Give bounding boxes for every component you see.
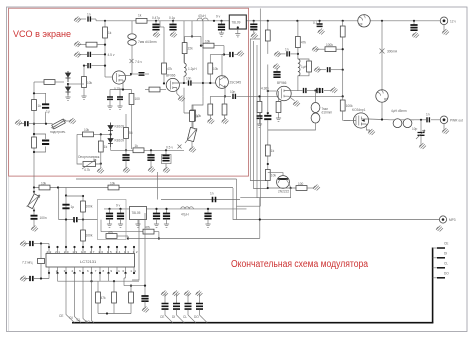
wire (110, 147, 112, 151)
capacitor C29 black (120, 209, 122, 214)
wire x58.7 (59, 188, 65, 220)
wire emitter (290, 185, 291, 189)
svg-text:1k: 1k (195, 115, 199, 119)
wire drain rail vertical (381, 21, 383, 90)
junction (104, 65, 106, 67)
resistor R35 (81, 230, 86, 241)
ground G10 (436, 226, 443, 232)
ground G22 (125, 160, 127, 168)
svg-text:1n: 1n (87, 13, 91, 17)
svg-text:1.2μH: 1.2μH (188, 67, 197, 71)
svg-text:RF: RF (384, 98, 388, 102)
svg-text:CL: CL (77, 318, 81, 322)
ground G4 (318, 29, 325, 35)
resistor R23 horizontal (325, 47, 336, 52)
svg-text:9 v: 9 v (216, 15, 221, 19)
wire (128, 236, 260, 239)
ground G13 (81, 96, 86, 99)
ground G37 (166, 219, 168, 224)
junction (165, 208, 167, 210)
svg-text:4.7k: 4.7k (84, 168, 90, 172)
junction (267, 20, 269, 22)
wire down (158, 232, 160, 239)
wire x66 (65, 188, 67, 248)
capacitor C30 black (156, 209, 158, 214)
capacitor C2 black (253, 21, 255, 25)
wire (431, 119, 440, 121)
trimcap TC4 (196, 291, 203, 297)
capacitor C25 (259, 113, 261, 117)
wire (83, 66, 85, 77)
junction (163, 82, 165, 84)
VCO shield red box (9, 8, 249, 176)
resistor R22 (307, 61, 312, 72)
capacitor C20 (274, 51, 281, 57)
wire y219.5 (66, 219, 98, 221)
svg-text:LC72131: LC72131 (80, 259, 97, 264)
junction (155, 208, 157, 210)
junction (267, 90, 269, 92)
crystal X1 (40, 244, 42, 259)
svg-text:100k: 100k (86, 205, 93, 209)
wire (209, 74, 211, 83)
resistor R31 (39, 185, 50, 190)
svg-text:DI: DI (70, 316, 73, 320)
resistor R38 (113, 281, 115, 292)
capacitor C5 series (427, 117, 429, 122)
wire (342, 96, 344, 100)
capacitor C24 black (317, 88, 319, 93)
junction (57, 186, 59, 188)
svg-text:0.1μ: 0.1μ (169, 16, 175, 20)
ground slant G27 (273, 64, 280, 70)
junction (82, 218, 84, 220)
sub box shield (98, 200, 127, 240)
wire rail y199.5 (161, 199, 240, 201)
junction (342, 69, 344, 71)
wire (131, 21, 133, 33)
svg-text:22k: 22k (188, 47, 194, 51)
capacitor C3 (319, 21, 321, 24)
wire gate (105, 76, 112, 78)
wire CE (66, 273, 75, 323)
trimmer capacitor CT1 (420, 120, 422, 132)
ground G15 (107, 106, 112, 109)
junction (127, 237, 129, 239)
wire (104, 38, 106, 77)
resistor R26 (257, 102, 262, 113)
wire (267, 41, 269, 54)
junction (33, 186, 35, 188)
tick DO (433, 277, 445, 279)
junction (200, 45, 202, 47)
trimmer RP1 (50, 118, 67, 130)
wire (411, 119, 426, 121)
capacitor C21 black (276, 68, 278, 72)
svg-text:KO34np1: KO34np1 (352, 108, 366, 112)
capacitor C7 (84, 65, 87, 67)
svg-text:10p: 10p (412, 127, 418, 131)
wire (297, 76, 299, 91)
junction (413, 20, 415, 22)
resistor R4 (82, 77, 87, 88)
junction (183, 82, 185, 84)
ground G23 (150, 160, 152, 167)
wire bottom bus (111, 149, 185, 151)
capacitor C26 (267, 113, 269, 115)
varicap D2 (66, 84, 71, 95)
transistor Q1 (112, 71, 125, 84)
svg-text:BF966: BF966 (166, 74, 176, 78)
wire rail y187.5 (34, 187, 233, 189)
pin stubs bottom (49, 267, 134, 273)
svg-text:78L05: 78L05 (132, 211, 141, 215)
wire source down (366, 124, 370, 130)
junction (130, 285, 132, 287)
resistor R20 (267, 21, 269, 30)
resistor R40 (182, 43, 187, 54)
ground G31 (278, 113, 280, 119)
wire (267, 181, 269, 189)
junction (213, 20, 215, 22)
ground G26 (191, 141, 193, 148)
svg-text:7.2 мгц: 7.2 мгц (22, 261, 33, 265)
junction (259, 218, 261, 220)
ground G33 (33, 220, 35, 227)
ground G46 (221, 30, 223, 33)
wire bundle v2 (254, 41, 269, 189)
wire (131, 45, 133, 74)
wire (268, 123, 316, 130)
junction (314, 89, 316, 91)
svg-text:2N2222: 2N2222 (278, 190, 289, 194)
junction (40, 277, 42, 279)
wire (34, 273, 49, 279)
resistor R5 (34, 81, 44, 83)
wire pins 7,8 down (100, 273, 109, 281)
wire gate feed (344, 120, 350, 122)
connector J1 12V (440, 17, 448, 25)
junction (158, 237, 160, 239)
svg-text:47k: 47k (167, 67, 173, 71)
ground G3 (253, 30, 255, 34)
ground G19 (209, 115, 211, 119)
wire (100, 152, 102, 168)
wire (381, 102, 383, 120)
capacitor C32 black (207, 209, 209, 214)
junction (104, 44, 106, 46)
junction (150, 149, 152, 151)
wire (113, 303, 115, 313)
wire (94, 133, 111, 135)
wire pin2 down (57, 273, 59, 281)
resistor R2 (104, 21, 106, 27)
junction (122, 88, 124, 90)
wire (203, 82, 216, 84)
svg-text:Опорн.напряж.: Опорн.напряж. (78, 155, 100, 159)
svg-text:10k: 10k (205, 40, 211, 44)
junction (33, 133, 35, 135)
resistor R15 (98, 141, 103, 152)
junction (296, 20, 298, 22)
bus vertical thick (432, 248, 434, 323)
svg-text:DI: DI (172, 315, 175, 319)
wire (124, 285, 145, 287)
wire bundle v3 (257, 45, 291, 198)
ground G11 (74, 41, 81, 47)
inductor L5 (298, 59, 300, 76)
wire bundle v4 (259, 9, 261, 207)
junction (267, 112, 269, 114)
svg-text:DI: DI (444, 252, 447, 256)
bus horizontal thick (72, 322, 433, 324)
junction (172, 20, 174, 22)
trimmer RP4 (33, 191, 35, 193)
svg-text:CE: CE (59, 314, 63, 318)
svg-text:DO: DO (85, 320, 90, 324)
capacitor C41 black (155, 21, 157, 25)
wire (100, 134, 102, 141)
svg-text:1k: 1k (138, 14, 142, 18)
junction (267, 187, 269, 189)
inductor L7 47uH (181, 207, 194, 209)
ground G42 (20, 276, 27, 282)
capacitor C4 to gnd (413, 21, 415, 25)
ground G41 (20, 241, 27, 247)
capacitor C38 black (24, 243, 29, 245)
transistor Q5 (277, 176, 290, 189)
resistor R9 (159, 21, 161, 27)
ground G44 (153, 32, 160, 38)
wire (267, 156, 269, 170)
resistor R12 (210, 95, 225, 97)
junction (267, 163, 269, 165)
junction (90, 280, 92, 282)
wire reg gnd (137, 220, 139, 225)
trimmer RP2 (83, 162, 96, 167)
tick DI (433, 257, 445, 259)
wire (307, 187, 314, 189)
wire (154, 231, 159, 233)
resistor R34 (81, 201, 86, 212)
wire (267, 120, 269, 145)
capacitor C19 trim (165, 150, 167, 155)
wire drain right (290, 90, 302, 92)
resistor R30 (296, 186, 307, 191)
wire vertical x157.5 (157, 172, 159, 200)
resistor R39 (130, 286, 132, 292)
junction (82, 195, 84, 197)
wire source gnd (177, 88, 180, 97)
ground G20 (224, 115, 226, 119)
inductor L4 (183, 21, 185, 63)
capacitor C6 (78, 53, 87, 55)
resistor R8 (131, 90, 133, 94)
ground G6 (443, 25, 445, 30)
svg-text:47k: 47k (301, 41, 307, 45)
wire pin10 (124, 273, 126, 286)
svg-text:4μH d5mm: 4μH d5mm (391, 109, 407, 113)
junction (381, 20, 383, 22)
resistor R16 (124, 128, 129, 139)
wire (48, 244, 50, 248)
svg-text:KB109: KB109 (115, 139, 125, 143)
resistor R17 (133, 148, 144, 153)
svg-text:10n: 10n (230, 90, 236, 94)
svg-text:1n: 1n (426, 113, 430, 117)
transistor Q4 (277, 86, 291, 100)
svg-text:10k: 10k (110, 182, 116, 186)
capacitor C33 black series (213, 197, 216, 202)
capacitor C43 black (220, 20, 222, 22)
capacitor C8 (34, 93, 46, 123)
wire (297, 48, 299, 60)
svg-text:100k: 100k (326, 43, 333, 47)
resistor R13 (222, 104, 227, 115)
capacitor C14 (184, 82, 187, 84)
wire (192, 96, 203, 110)
svg-text:2SC945: 2SC945 (230, 81, 242, 85)
wire top rail (96, 20, 444, 22)
ground G24 (165, 164, 167, 169)
wire (342, 37, 344, 70)
junction (67, 83, 69, 85)
junction (253, 20, 255, 22)
wire rail y208.9 (104, 208, 247, 210)
wire (163, 74, 165, 83)
wire DO (92, 273, 94, 323)
junction (258, 95, 260, 97)
svg-text:7.6 v: 7.6 v (135, 60, 142, 64)
junction (224, 95, 226, 97)
wire MP3 feed (233, 188, 439, 220)
IC U1 LC72131 (46, 254, 135, 268)
fuse F1 300mA (380, 49, 385, 54)
tick CE (433, 247, 445, 249)
svg-text:MP3: MP3 (449, 218, 456, 222)
junction (165, 149, 167, 151)
wire (307, 90, 315, 92)
svg-text:1μ: 1μ (46, 110, 50, 114)
varicap D4 (108, 134, 113, 147)
inductor L6 air coil (315, 91, 317, 103)
wire source down (110, 80, 132, 90)
regulator U3 78L05 (130, 207, 147, 220)
ground G7 (368, 129, 375, 135)
junction (202, 82, 204, 84)
ground G34 (109, 219, 111, 224)
resistor R11 (209, 55, 211, 64)
connector J3 MP3 (439, 216, 446, 223)
svg-text:10n: 10n (186, 77, 192, 81)
ground G36 (156, 219, 158, 224)
resistor R10 (148, 89, 150, 91)
svg-text:56: 56 (129, 131, 133, 135)
junction (113, 280, 115, 282)
wire (34, 243, 49, 245)
svg-text:1k: 1k (38, 104, 42, 108)
junction (155, 20, 157, 22)
regulator U2 78L09 box (229, 15, 246, 29)
ground G5 (412, 32, 419, 38)
wire (131, 105, 133, 150)
wire (78, 18, 86, 20)
wire drain up (125, 74, 131, 76)
wire row y313.5 (98, 313, 131, 315)
wire source (289, 96, 295, 101)
svg-text:1μ: 1μ (71, 205, 75, 209)
capacitor C35 (74, 217, 77, 222)
junction (297, 53, 299, 55)
junction (40, 242, 42, 244)
svg-text:1n: 1n (210, 192, 214, 196)
svg-text:47k: 47k (145, 226, 151, 230)
wire stair top (250, 39, 260, 41)
wire (117, 235, 128, 237)
svg-text:RF: RF (359, 23, 363, 27)
wire base left (268, 173, 283, 176)
svg-text:d10mm: d10mm (322, 111, 333, 115)
svg-text:100k: 100k (346, 104, 353, 108)
svg-text:CL: CL (444, 262, 448, 266)
ground G25 (190, 130, 195, 133)
svg-text:KB109: KB109 (115, 125, 125, 129)
junction (110, 133, 112, 135)
svg-text:47μH: 47μH (181, 213, 189, 217)
capacitor C12 (119, 90, 121, 98)
svg-text:7мм d4.5mm: 7мм d4.5mm (138, 40, 157, 44)
svg-text:100: 100 (135, 97, 141, 101)
frame inner left line (8, 7, 10, 332)
junction (319, 20, 321, 22)
ground G2 (237, 26, 239, 28)
junction (290, 187, 292, 189)
capacitor C17 black (125, 150, 127, 155)
ground G16 (117, 106, 122, 109)
tick CL (433, 267, 445, 269)
ground G30 (259, 118, 261, 124)
svg-text:100n: 100n (40, 216, 47, 220)
resistor R1 (136, 18, 147, 23)
wire drain to coil (369, 118, 390, 121)
pin dots bottom (48, 272, 50, 274)
junction (65, 218, 67, 220)
transistor Q6 KO34np1 (353, 113, 368, 128)
junction (342, 95, 344, 97)
svg-text:1k: 1k (104, 145, 108, 149)
ground G17 (178, 96, 185, 102)
wire (192, 121, 194, 130)
junction (130, 73, 132, 75)
svg-text:10k: 10k (41, 182, 47, 186)
crystal input cap C9 (15, 120, 22, 126)
svg-text:1k: 1k (108, 31, 112, 35)
svg-text:0.1: 0.1 (313, 21, 318, 25)
resistor R19 (190, 111, 195, 122)
resistor R7 (32, 137, 37, 148)
trimmer RP3 (191, 122, 193, 129)
wire CL (83, 273, 87, 323)
ground G28 (331, 87, 338, 93)
capacitor C28 black (109, 209, 111, 214)
svg-text:CE: CE (444, 242, 448, 246)
wire stair h (236, 179, 260, 220)
pin dots top (48, 246, 50, 248)
ground G9 (419, 143, 426, 149)
junction (207, 208, 209, 210)
ground G14 (65, 120, 70, 122)
capacitor C11 (109, 90, 111, 98)
